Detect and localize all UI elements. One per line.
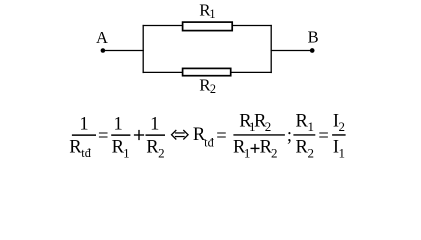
svg-text:2: 2 — [338, 119, 345, 134]
svg-text:2: 2 — [307, 146, 314, 161]
svg-text:1: 1 — [79, 114, 88, 134]
svg-text:1: 1 — [209, 7, 215, 21]
svg-text:2: 2 — [158, 146, 165, 161]
svg-text:B: B — [308, 28, 319, 47]
svg-text:1: 1 — [244, 146, 251, 161]
svg-text:1: 1 — [307, 119, 314, 134]
svg-text:=: = — [216, 127, 226, 147]
svg-text:1: 1 — [113, 114, 122, 134]
svg-text:đ: đ — [85, 146, 92, 160]
svg-text:A: A — [96, 28, 108, 47]
svg-text:R: R — [69, 138, 82, 158]
svg-text:1: 1 — [338, 146, 345, 161]
svg-text:;: ; — [287, 126, 292, 146]
svg-text:1: 1 — [150, 114, 159, 134]
svg-text:2: 2 — [210, 82, 216, 96]
svg-text:1: 1 — [123, 146, 130, 161]
svg-text:=: = — [318, 127, 328, 147]
svg-text:đ: đ — [208, 135, 215, 149]
svg-text:2: 2 — [265, 119, 272, 134]
svg-text:=: = — [98, 127, 108, 147]
svg-text:2: 2 — [271, 146, 278, 161]
